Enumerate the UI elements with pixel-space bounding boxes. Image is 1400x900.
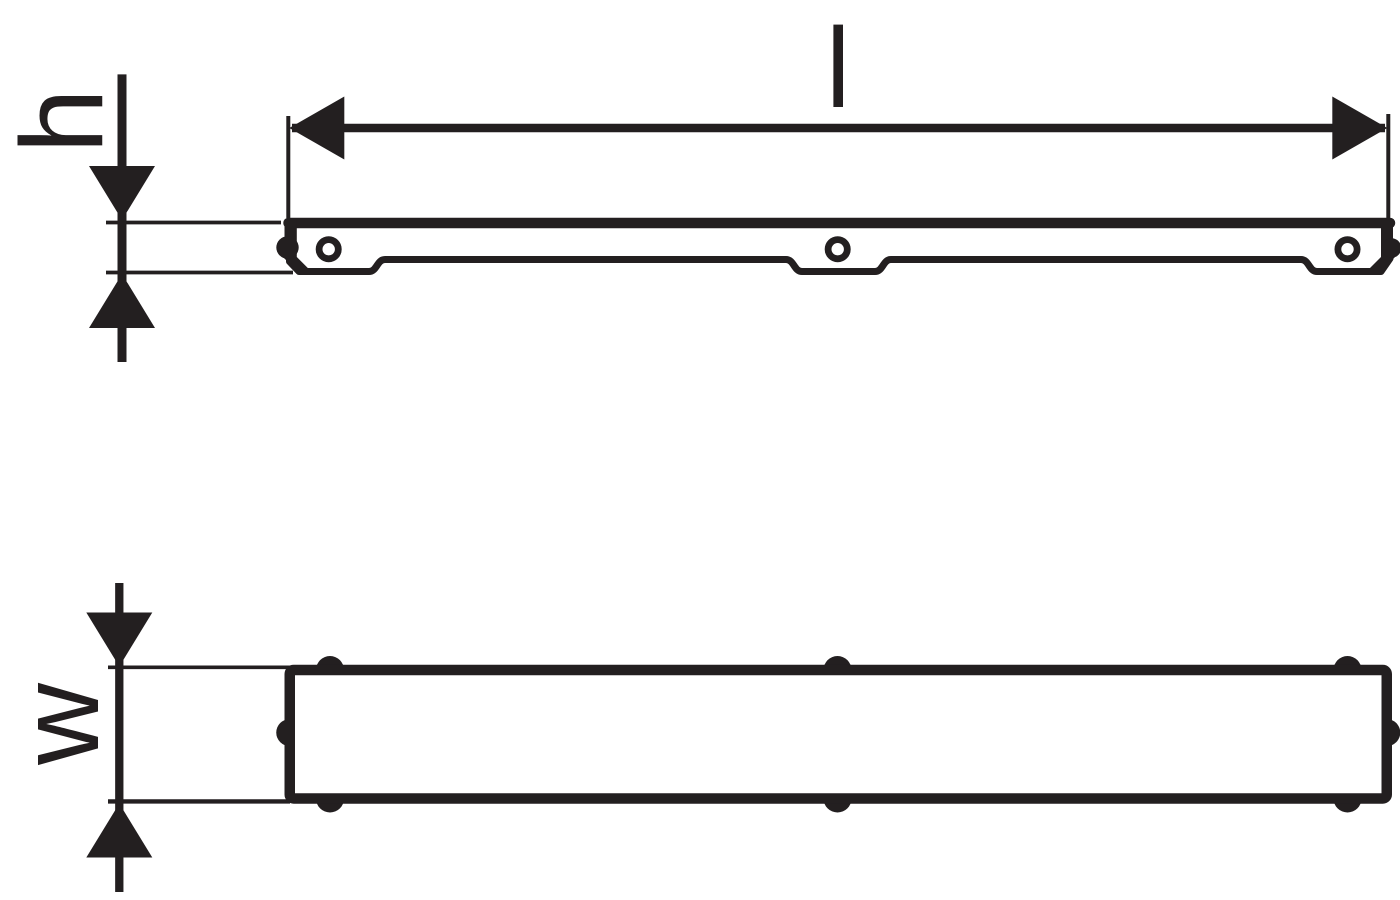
side view: top edge (thick): [289, 218, 1391, 229]
dimension w: lower extension line: [108, 799, 290, 803]
side view: right end cap: [1370, 220, 1396, 275]
top view: edge bump bottom 1: [316, 785, 344, 813]
dimension h: lower extension line: [106, 271, 293, 275]
side view: hole 1: [319, 240, 338, 259]
dimension h: upper extension line: [106, 221, 281, 225]
dimension l: right extension line: [1386, 114, 1390, 218]
dimension w: upper extension line: [108, 665, 290, 669]
dimension l: dimension line: [292, 124, 1385, 133]
top view: edge bump top 2: [824, 656, 852, 684]
svg-text:h: h: [0, 88, 128, 153]
side view: hole 2: [828, 240, 847, 259]
top view: edge bump bottom 3: [1334, 785, 1362, 813]
side view: left end bump: [276, 236, 298, 258]
top view: edge bump right: [1373, 719, 1400, 746]
top view: edge bump bottom 2: [824, 785, 852, 813]
dimension w: down arrowhead: [86, 613, 152, 667]
dimension l: label l: [833, 25, 843, 107]
top view: body rectangle: [290, 670, 1387, 799]
top view: edge bump left: [276, 719, 303, 746]
dimension l: left extension line: [286, 116, 290, 218]
top view: edge bump top 1: [316, 656, 344, 684]
dimension h: up arrowhead: [89, 274, 155, 328]
side view: left end cap: [282, 220, 308, 275]
side view: part outline: [290, 223, 1391, 272]
dimension w: dimension line: [115, 583, 123, 892]
side view: hole 3: [1338, 240, 1357, 259]
dimension l: right arrowhead: [1332, 97, 1387, 160]
top view: edge bump top 3: [1334, 656, 1362, 684]
dimension w: up arrowhead: [86, 804, 152, 858]
svg-text:w: w: [0, 682, 123, 766]
side view: right end bump: [1382, 238, 1400, 258]
dimension h: down arrowhead: [89, 166, 155, 220]
dimension h: dimension line: [118, 74, 127, 362]
dimension l: left arrowhead: [289, 97, 344, 160]
